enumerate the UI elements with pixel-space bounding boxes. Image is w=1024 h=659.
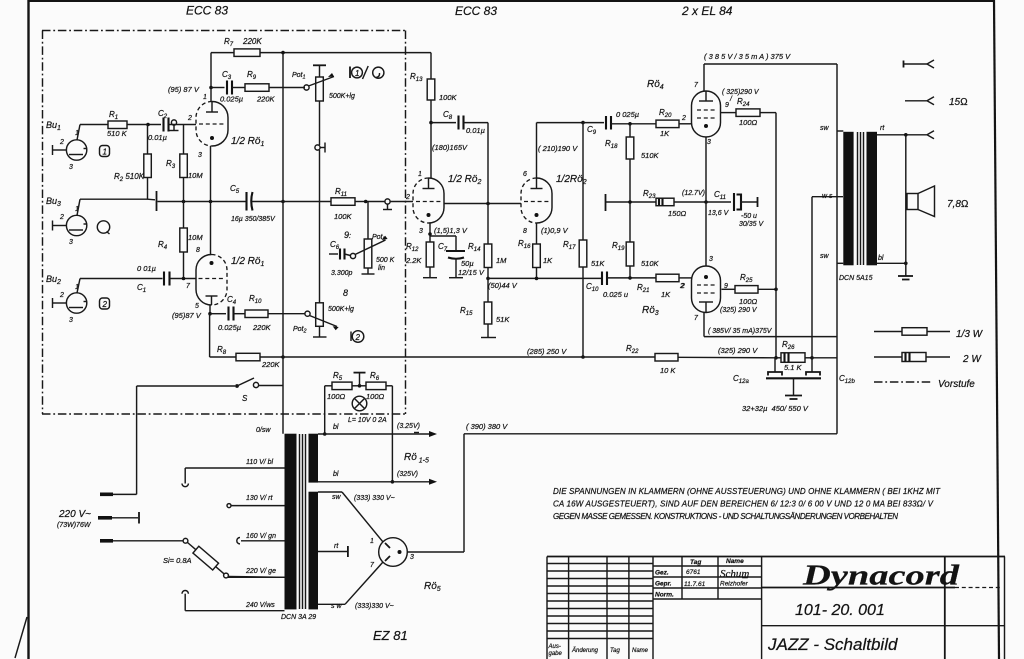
notes text bbox=[553, 487, 941, 521]
svg-text:100K: 100K bbox=[439, 93, 458, 102]
svg-text:Name: Name bbox=[632, 648, 649, 654]
channel icon 2 (boxed) at Bu2 bbox=[100, 298, 110, 309]
svg-text:10M: 10M bbox=[188, 233, 203, 242]
jack mark 9 above C6 bbox=[344, 230, 351, 240]
svg-text:7,8Ω: 7,8Ω bbox=[947, 199, 969, 210]
capacitor C3 0.025u bbox=[211, 70, 243, 104]
svg-text:1: 1 bbox=[75, 130, 79, 137]
svg-text:Rö5: Rö5 bbox=[424, 581, 441, 593]
svg-text:R11: R11 bbox=[335, 187, 347, 198]
page right border bbox=[994, 0, 999, 659]
chassis bar bias row left bbox=[605, 194, 607, 211]
svg-text:C12a: C12a bbox=[733, 374, 749, 385]
svg-text:101- 20. 001: 101- 20. 001 bbox=[795, 602, 885, 619]
svg-text:(333) 330 V~: (333) 330 V~ bbox=[354, 495, 395, 502]
svg-text:JAZZ - Schaltbild: JAZZ - Schaltbild bbox=[767, 635, 898, 654]
svg-text:2.2K: 2.2K bbox=[405, 256, 422, 265]
svg-text:11.7.61: 11.7.61 bbox=[684, 581, 706, 588]
wire C1 to Rö1b grid bbox=[170, 277, 197, 281]
svg-text:2: 2 bbox=[187, 115, 192, 122]
svg-text:1K: 1K bbox=[543, 256, 553, 265]
svg-text:EZ 81: EZ 81 bbox=[373, 628, 408, 643]
svg-text:7: 7 bbox=[694, 82, 699, 89]
title block frame bbox=[547, 557, 1005, 659]
pentode U Rö4 (EL84 upper) bbox=[647, 79, 721, 146]
svg-text:C8: C8 bbox=[443, 110, 453, 121]
svg-text:GEGEN MASSE GEMESSEN. KONSTRUK: GEGEN MASSE GEMESSEN. KONSTRUKTIONS - UN… bbox=[553, 512, 898, 521]
svg-text:3: 3 bbox=[69, 164, 73, 171]
svg-text:R2 510K: R2 510K bbox=[114, 172, 145, 183]
svg-text:C3: C3 bbox=[222, 70, 232, 81]
svg-text:C12b: C12b bbox=[839, 374, 855, 385]
svg-text:6761: 6761 bbox=[686, 569, 701, 576]
wire OT feed vertical x837 bbox=[836, 64, 838, 434]
svg-text:130 V/ rt: 130 V/ rt bbox=[246, 495, 274, 502]
svg-text:sw: sw bbox=[820, 253, 830, 260]
svg-text:2: 2 bbox=[355, 333, 361, 342]
field 101-20.001 bbox=[762, 602, 1005, 626]
svg-text:sw: sw bbox=[820, 125, 830, 132]
svg-text:3.300p: 3.300p bbox=[331, 270, 353, 277]
svg-text:( 385V/ 35 mA)375V: ( 385V/ 35 mA)375V bbox=[708, 328, 773, 335]
svg-text:100Ω: 100Ω bbox=[366, 392, 385, 401]
wire plate bus x776 bbox=[774, 113, 778, 360]
svg-text:Gepr.: Gepr. bbox=[655, 581, 672, 588]
svg-text:220K: 220K bbox=[261, 360, 281, 369]
wire Bu1 input line bbox=[80, 124, 108, 126]
primary tap 160V/gn bbox=[237, 533, 285, 544]
resistor R15 51K bbox=[460, 278, 510, 337]
primary tap 130V/rt bbox=[227, 495, 285, 508]
svg-text:30/35 V: 30/35 V bbox=[739, 221, 764, 228]
svg-text:3: 3 bbox=[707, 139, 711, 146]
output transformer DCN 5A15 bbox=[820, 125, 885, 282]
svg-text:240 V/ws: 240 V/ws bbox=[245, 602, 275, 609]
page corner mark bottom-left bbox=[15, 617, 27, 658]
svg-text:110 V/ bl: 110 V/ bl bbox=[246, 459, 274, 466]
svg-text:0 01µ: 0 01µ bbox=[137, 264, 156, 273]
triode U Rö2b (1/2 ECC83) bbox=[521, 171, 587, 235]
svg-text:Reizhofer: Reizhofer bbox=[720, 581, 749, 588]
svg-text:Pot1: Pot1 bbox=[292, 72, 306, 81]
center tap mark above lamp bbox=[354, 373, 366, 386]
svg-text:Aus-: Aus- bbox=[548, 644, 561, 650]
svg-text:8: 8 bbox=[343, 288, 348, 298]
resistor R7 220K bbox=[211, 37, 431, 56]
svg-text:0.025 u: 0.025 u bbox=[603, 290, 629, 299]
svg-text:2: 2 bbox=[59, 139, 64, 146]
resistor R11 100K bbox=[283, 187, 385, 221]
svg-text:1/2 Rö2: 1/2 Rö2 bbox=[448, 174, 481, 186]
capacitor C12b 32u bbox=[806, 358, 855, 385]
shared cap plate + ground bbox=[742, 378, 821, 413]
resistor R9 220K bbox=[232, 70, 305, 104]
svg-text:C2: C2 bbox=[158, 109, 168, 120]
svg-text:0.01µ: 0.01µ bbox=[148, 133, 167, 142]
svg-text:100Ω: 100Ω bbox=[327, 392, 346, 401]
channel icon Q at Bu3 bbox=[97, 221, 109, 234]
svg-text:2 W: 2 W bbox=[962, 354, 982, 365]
svg-text:1K: 1K bbox=[660, 129, 670, 138]
svg-text:100K: 100K bbox=[334, 212, 353, 221]
svg-text:C9: C9 bbox=[587, 125, 597, 136]
svg-text:Pot2: Pot2 bbox=[293, 326, 307, 335]
wire Rö1a anode to R7 row bbox=[209, 53, 213, 102]
speaker 7.8R bbox=[906, 186, 969, 217]
switch S bbox=[137, 378, 283, 403]
wire Rö1a cathode / Rö1b anode vertical bbox=[210, 146, 212, 255]
svg-text:(180)165V: (180)165V bbox=[432, 143, 468, 152]
svg-text:R14: R14 bbox=[468, 242, 481, 253]
rectifier heater sw bottom (333)330V~ bbox=[318, 562, 394, 610]
capacitor C7 50u 12/15V bbox=[438, 236, 485, 278]
pentode U Rö3 (EL84 lower) bbox=[642, 256, 728, 322]
node label (210)190V bbox=[538, 144, 578, 153]
resistor R5 100R bbox=[325, 371, 366, 401]
resistor R20 1K bbox=[656, 108, 692, 138]
wire B+ (390)380V rail bbox=[464, 422, 837, 434]
capacitor C4 0.025u bbox=[210, 295, 241, 332]
svg-text:Änderung: Änderung bbox=[571, 647, 599, 654]
channel icon 2 circled at Pot2 bbox=[351, 331, 364, 343]
svg-text:1/2Rö2: 1/2Rö2 bbox=[556, 174, 587, 186]
node label (180)165V bbox=[432, 143, 468, 152]
svg-text:51K: 51K bbox=[496, 315, 510, 324]
svg-text:( 3 8 5 V / 3 5 m A ) 375 V: ( 3 8 5 V / 3 5 m A ) 375 V bbox=[704, 52, 791, 61]
wire screen row y336.6 bbox=[704, 313, 837, 337]
title ECC 83 (first stage) bbox=[186, 4, 228, 18]
svg-text:S: S bbox=[242, 394, 248, 403]
resistor R25 100R bbox=[720, 273, 778, 314]
wire rectifier output to B+ bbox=[407, 434, 464, 552]
resistor R6 100R bbox=[366, 371, 392, 401]
capacitor C8 0.01u bbox=[431, 110, 488, 135]
svg-text:R25: R25 bbox=[740, 273, 753, 284]
resistor R19 510K bbox=[612, 202, 660, 278]
primary tap 0/sw bbox=[256, 427, 271, 434]
connector Bu3 bbox=[46, 196, 87, 246]
svg-text:500K+lg: 500K+lg bbox=[328, 306, 354, 313]
svg-text:R18: R18 bbox=[605, 139, 618, 150]
resistor R21 1K bbox=[637, 274, 692, 299]
svg-text:lin: lin bbox=[378, 265, 385, 272]
svg-text:(12.7V): (12.7V) bbox=[682, 190, 705, 197]
svg-text:Rö 1-5: Rö 1-5 bbox=[404, 452, 429, 465]
jack mark 8 below pot3 wiper bbox=[343, 288, 348, 298]
wire interstage Rö2a to Rö2b bbox=[444, 202, 521, 206]
capacitor C11 50u 30/35V bbox=[682, 190, 764, 228]
wire rt secondary row bbox=[877, 131, 934, 139]
svg-text:ECC 83: ECC 83 bbox=[455, 4, 497, 18]
Vorstufe dash-dot boundary box bbox=[42, 31, 406, 415]
capacitor C1 0.01u bbox=[137, 264, 170, 294]
svg-text:32+32µ 450/ 550 V: 32+32µ 450/ 550 V bbox=[742, 404, 809, 413]
svg-text:220K: 220K bbox=[242, 37, 262, 46]
svg-text:(95) 87 V: (95) 87 V bbox=[168, 85, 200, 94]
svg-text:2: 2 bbox=[59, 214, 64, 221]
mains input terminal top bbox=[100, 386, 137, 496]
svg-text:0.025µ: 0.025µ bbox=[220, 95, 243, 104]
svg-text:R21: R21 bbox=[637, 283, 649, 294]
svg-text:(50)44 V: (50)44 V bbox=[488, 281, 518, 290]
svg-text:R3: R3 bbox=[166, 159, 176, 170]
svg-text:15Ω: 15Ω bbox=[949, 97, 968, 108]
triode U Rö1a (1/2 ECC83) bbox=[187, 94, 264, 159]
wire cathode row y201 bbox=[158, 200, 246, 204]
svg-text:1/3 W: 1/3 W bbox=[956, 329, 984, 340]
svg-text:220 V~: 220 V~ bbox=[58, 509, 91, 520]
power transformer DCN 3A29 bbox=[281, 434, 318, 621]
svg-text:( 390) 380 V: ( 390) 380 V bbox=[466, 422, 508, 431]
resistor R12 2.2K bbox=[405, 236, 437, 278]
wire OT primary stubs bbox=[837, 131, 843, 263]
svg-text:Pot3: Pot3 bbox=[372, 234, 387, 243]
svg-text:R8: R8 bbox=[217, 345, 227, 356]
wire speaker drop bbox=[905, 135, 907, 263]
wire B+ bus vertical x283 bbox=[281, 51, 285, 434]
capacitor C5 16u 350/385V bbox=[230, 184, 285, 223]
svg-text:160 V/ gn: 160 V/ gn bbox=[246, 533, 276, 540]
svg-text:150Ω: 150Ω bbox=[668, 209, 687, 218]
page top border bbox=[28, 0, 993, 2]
potentiometer Pot1 500K+lg bbox=[292, 65, 355, 145]
wire bias row y202 bbox=[606, 200, 731, 204]
svg-text:0.01µ: 0.01µ bbox=[466, 126, 485, 135]
svg-text:(325) 290 V: (325) 290 V bbox=[718, 346, 758, 355]
legend 2 W resistor bbox=[874, 353, 982, 366]
svg-text:DIE SPANNUNGEN IN KLAMMERN (OH: DIE SPANNUNGEN IN KLAMMERN (OHNE AUSSTEU… bbox=[553, 487, 941, 496]
revision table bbox=[547, 557, 653, 659]
svg-text:R23: R23 bbox=[643, 189, 656, 200]
resistor R2 510K (grid leak Bu1) bbox=[114, 125, 151, 200]
Dynacord logo bbox=[762, 560, 1002, 592]
svg-text:R19: R19 bbox=[612, 241, 625, 252]
svg-text:(333)330 V~: (333)330 V~ bbox=[355, 603, 394, 610]
svg-text:bl: bl bbox=[333, 424, 339, 431]
svg-text:Si= 0.8A: Si= 0.8A bbox=[163, 556, 192, 565]
potentiometer Pot3 500K lin bbox=[350, 202, 394, 275]
resistor R1 510K bbox=[107, 110, 128, 138]
svg-text:1K: 1K bbox=[661, 290, 671, 299]
wire Bu3 line to ground bar bbox=[80, 198, 155, 201]
svg-text:w s: w s bbox=[822, 193, 833, 200]
svg-text:0/sw: 0/sw bbox=[256, 427, 271, 434]
svg-text:2 x EL 84: 2 x EL 84 bbox=[681, 4, 733, 18]
svg-text:50µ: 50µ bbox=[461, 259, 474, 268]
svg-text:3: 3 bbox=[419, 228, 423, 235]
resistor R17 51K bbox=[563, 123, 605, 359]
resistor R10 220K bbox=[234, 294, 306, 332]
svg-text:R16: R16 bbox=[518, 239, 531, 250]
svg-text:1: 1 bbox=[103, 148, 107, 157]
svg-text:0.025µ: 0.025µ bbox=[218, 323, 241, 332]
svg-text:1M: 1M bbox=[496, 256, 507, 265]
svg-text:Name: Name bbox=[726, 558, 744, 565]
svg-text:3: 3 bbox=[69, 239, 73, 246]
svg-text:rt: rt bbox=[334, 543, 339, 550]
svg-text:Bu1: Bu1 bbox=[46, 120, 61, 132]
svg-text:C11: C11 bbox=[714, 190, 726, 201]
svg-text:gabe: gabe bbox=[549, 651, 563, 657]
svg-text:( 210)190 V: ( 210)190 V bbox=[538, 144, 578, 153]
svg-text:Bu3: Bu3 bbox=[46, 196, 61, 208]
resistor R26 5.1K (2W) bbox=[776, 340, 814, 372]
svg-text:L= 10V 0 2A: L= 10V 0 2A bbox=[348, 417, 387, 424]
svg-text:2: 2 bbox=[681, 115, 686, 122]
svg-text:Gez.: Gez. bbox=[655, 570, 669, 577]
pilot lamp L 10V 0.2A bbox=[348, 396, 387, 424]
svg-text:100Ω: 100Ω bbox=[739, 118, 758, 127]
legend Vorstufe dash-dot bbox=[874, 379, 975, 390]
svg-text:rt: rt bbox=[880, 125, 885, 132]
svg-text:8: 8 bbox=[523, 228, 527, 235]
svg-text:R12: R12 bbox=[406, 242, 419, 253]
svg-text:DCN 3A 29: DCN 3A 29 bbox=[281, 614, 316, 621]
svg-text:( 325)290 V: ( 325)290 V bbox=[722, 89, 760, 96]
wire Rö1b cathode node bbox=[172, 305, 212, 320]
node label (1,5)1,3 V bbox=[434, 226, 468, 235]
svg-text:R5: R5 bbox=[333, 371, 343, 382]
channel icon D/Q bbox=[350, 66, 384, 79]
svg-text:sw: sw bbox=[332, 494, 342, 501]
svg-text:2: 2 bbox=[102, 300, 108, 309]
svg-text:8: 8 bbox=[196, 247, 200, 254]
svg-text:C10: C10 bbox=[586, 282, 599, 293]
wire R1 to C2 with node bbox=[127, 123, 161, 127]
svg-text:R20: R20 bbox=[659, 108, 672, 119]
channel icon 1 (boxed) at Bu1 bbox=[100, 146, 110, 157]
mains input terminal mid 220V bbox=[57, 509, 139, 529]
svg-text:1: 1 bbox=[355, 69, 359, 78]
svg-text:0 025µ: 0 025µ bbox=[616, 110, 639, 119]
resistor R24 100R bbox=[721, 89, 777, 127]
svg-text:1/2 Rö1: 1/2 Rö1 bbox=[231, 136, 264, 148]
svg-text:510 K: 510 K bbox=[107, 129, 128, 138]
svg-text:C1: C1 bbox=[137, 283, 146, 294]
jack symbol at Rö2a grid bbox=[383, 199, 413, 210]
svg-text:Schum̲: Schum̲ bbox=[720, 568, 749, 580]
svg-text:R1: R1 bbox=[109, 110, 118, 121]
svg-text:7: 7 bbox=[186, 283, 191, 290]
wire bias row y278 bbox=[488, 278, 601, 290]
resistor R3 10M bbox=[166, 125, 203, 202]
svg-text:2: 2 bbox=[679, 283, 684, 290]
wire Rö2a cathode node bbox=[428, 223, 456, 236]
svg-text:3: 3 bbox=[69, 317, 73, 324]
svg-text:C6: C6 bbox=[330, 240, 340, 251]
svg-text:DCN 5A15: DCN 5A15 bbox=[839, 275, 873, 282]
chassis bar at cathode row bbox=[156, 191, 158, 211]
wire R26 junction to corner bbox=[812, 357, 837, 359]
triode U Rö1b (1/2 ECC83) bbox=[186, 247, 264, 310]
svg-text:(3.25V): (3.25V) bbox=[397, 423, 420, 430]
svg-text:Tag: Tag bbox=[690, 559, 701, 566]
svg-text:220 V/ ge: 220 V/ ge bbox=[245, 568, 276, 575]
connector Bu2 bbox=[46, 274, 87, 324]
capacitor C12a 32u bbox=[733, 358, 782, 385]
connector Bu1 bbox=[46, 120, 87, 171]
svg-text:R6: R6 bbox=[370, 371, 380, 382]
svg-text:7: 7 bbox=[694, 315, 699, 322]
resistor R22 10K bbox=[626, 344, 776, 375]
label EZ 81 bbox=[373, 628, 408, 643]
svg-text:51K: 51K bbox=[591, 259, 605, 268]
svg-text:R22: R22 bbox=[626, 344, 639, 355]
svg-text:R17: R17 bbox=[563, 240, 576, 251]
svg-text:bl: bl bbox=[878, 255, 884, 262]
primary tap 110V/bl with selector hook bbox=[182, 459, 285, 487]
svg-text:bl: bl bbox=[333, 471, 339, 478]
svg-text:Rö4: Rö4 bbox=[647, 79, 664, 91]
legend terminal row 1 bbox=[904, 60, 935, 68]
svg-text:/: / bbox=[729, 96, 733, 103]
resistor R4 10M bbox=[158, 202, 203, 279]
svg-text:C4: C4 bbox=[227, 295, 237, 306]
capacitor C10 0.025u bbox=[586, 272, 656, 300]
svg-text:3: 3 bbox=[410, 554, 414, 561]
svg-text:9:: 9: bbox=[344, 230, 351, 240]
rectifier heater sw top (333)330V~ bbox=[318, 492, 395, 542]
svg-text:R9: R9 bbox=[247, 70, 257, 81]
svg-text:100Ω: 100Ω bbox=[739, 297, 758, 306]
svg-text:500 K: 500 K bbox=[376, 257, 395, 264]
svg-text:13,6 V: 13,6 V bbox=[708, 210, 730, 217]
heater row bl (325V) with arrow bbox=[318, 471, 437, 485]
svg-text:9: 9 bbox=[725, 102, 729, 109]
jack symbol at Rö1a grid bbox=[169, 120, 197, 131]
svg-text:C7: C7 bbox=[438, 242, 448, 253]
svg-text:510K: 510K bbox=[641, 151, 660, 160]
svg-text:R24: R24 bbox=[737, 97, 750, 108]
svg-text:10 K: 10 K bbox=[660, 366, 676, 375]
wire Bu2 input line bbox=[80, 278, 163, 280]
svg-text:3: 3 bbox=[709, 256, 713, 263]
svg-text:1: 1 bbox=[203, 94, 207, 101]
svg-text:6: 6 bbox=[523, 171, 527, 178]
svg-text:(285) 250 V: (285) 250 V bbox=[527, 347, 567, 356]
svg-text:(325V): (325V) bbox=[397, 471, 418, 478]
svg-text:1: 1 bbox=[75, 284, 79, 291]
svg-text:R26: R26 bbox=[782, 340, 795, 351]
legend 1/3 W resistor bbox=[874, 328, 984, 340]
svg-text:Rö3: Rö3 bbox=[642, 305, 659, 317]
svg-text:500K+lg: 500K+lg bbox=[329, 93, 355, 100]
svg-text:R7: R7 bbox=[224, 37, 234, 48]
legend row 15R bbox=[905, 97, 968, 108]
field JAZZ-Schaltbild bbox=[767, 635, 898, 654]
svg-text:10M: 10M bbox=[188, 171, 203, 180]
svg-text:1: 1 bbox=[75, 206, 79, 213]
svg-text:16µ 350/385V: 16µ 350/385V bbox=[231, 216, 276, 223]
node (95) 87 V bbox=[168, 85, 200, 94]
heater row bl (3.25V) with arrow bbox=[318, 423, 437, 437]
jack symbol mid pot chain bbox=[315, 143, 325, 303]
svg-text:R4: R4 bbox=[158, 240, 168, 251]
wire lamp circuit drops bbox=[323, 386, 394, 484]
wire ws center tap vertical bbox=[812, 197, 843, 358]
wire (285)250V row bbox=[283, 347, 655, 357]
svg-text:5.1 K: 5.1 K bbox=[784, 363, 803, 372]
svg-text:ECC 83: ECC 83 bbox=[186, 4, 228, 18]
svg-text:220K: 220K bbox=[256, 95, 276, 104]
approval table bbox=[653, 557, 762, 600]
capacitor C2 0.01u bbox=[148, 109, 169, 142]
resistor R16 1K bbox=[518, 223, 553, 280]
wire Rö2b anode to C9 row bbox=[537, 121, 585, 178]
svg-text:220K: 220K bbox=[252, 323, 272, 332]
mains input terminal bottom + fuse Si 0.8A bbox=[100, 538, 285, 578]
resistor R23 150R (2W striped) bbox=[643, 189, 687, 218]
